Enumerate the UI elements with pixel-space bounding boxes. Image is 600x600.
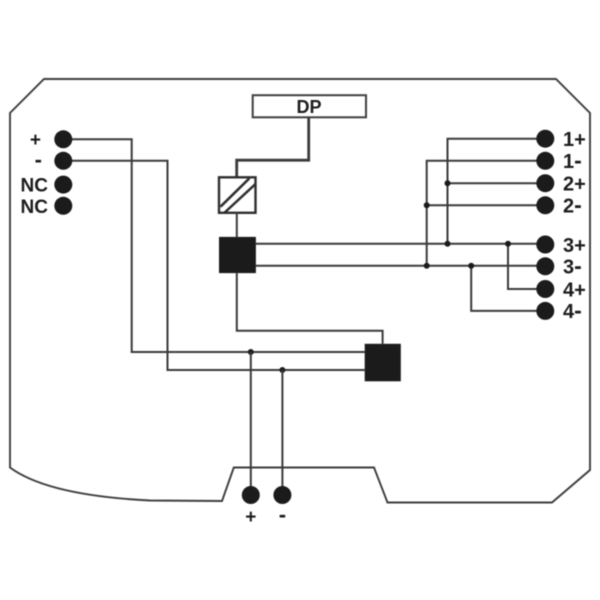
terminal 3+ [536,236,554,254]
terminal bottom + [242,486,260,504]
terminal 4+ [536,280,554,298]
terminal left - [54,152,72,170]
svg-text:DP: DP [296,97,321,117]
svg-text:-: - [279,502,286,527]
terminal left NC1 [54,176,72,194]
junction 4+ [505,241,511,247]
block1 (converter, solid) [219,237,256,273]
svg-text:-: - [35,147,42,172]
enclosure outline [10,79,590,503]
wire 1+ branch [448,139,546,244]
wire barrier to block1 [236,212,238,237]
wire upper bus block1 to 3+ [256,243,545,245]
junction bottom + [248,349,254,355]
wire lower bus block1 to 3- [256,265,545,267]
junction bottom - [279,367,285,373]
wire 4- branch [471,266,545,311]
junction 2- [424,202,430,208]
wire drop to bottom - [281,370,283,489]
junction upper bus [445,241,451,247]
junction lower bus [424,263,430,269]
wire DP to isolation barrier [237,117,309,178]
DP box U-DP [253,95,366,117]
svg-text:3-: 3- [563,253,582,279]
isolation barrier (hatched square) [219,177,256,213]
wire drop to bottom + [250,352,252,489]
wire left + to block2 [63,139,364,352]
wire block1 to block2 [237,273,383,344]
terminal bottom - [273,486,291,504]
svg-text:2-: 2- [563,192,582,218]
terminal 1+ [536,130,554,148]
terminal 4- [536,302,554,320]
svg-text:1-: 1- [563,147,582,173]
svg-text:+: + [245,507,256,528]
wire left - to block2 [63,161,364,370]
terminal 3- [536,257,554,275]
svg-text:4-: 4- [563,297,582,323]
block2 (supply block, solid) [365,344,401,382]
terminal left NC2 [54,197,72,215]
wire 1- branch [427,161,546,266]
wire 4+ branch [508,244,545,289]
junction 2+ [445,180,451,186]
svg-text:NC: NC [21,176,49,197]
terminal 2+ [536,174,554,192]
wire 2+ branch [448,182,546,184]
terminal left + [54,130,72,148]
terminal 1- [536,152,554,170]
terminal 2- [536,196,554,214]
junction 4- [468,263,474,269]
svg-text:NC: NC [21,197,49,218]
wire 2- branch [427,204,546,206]
